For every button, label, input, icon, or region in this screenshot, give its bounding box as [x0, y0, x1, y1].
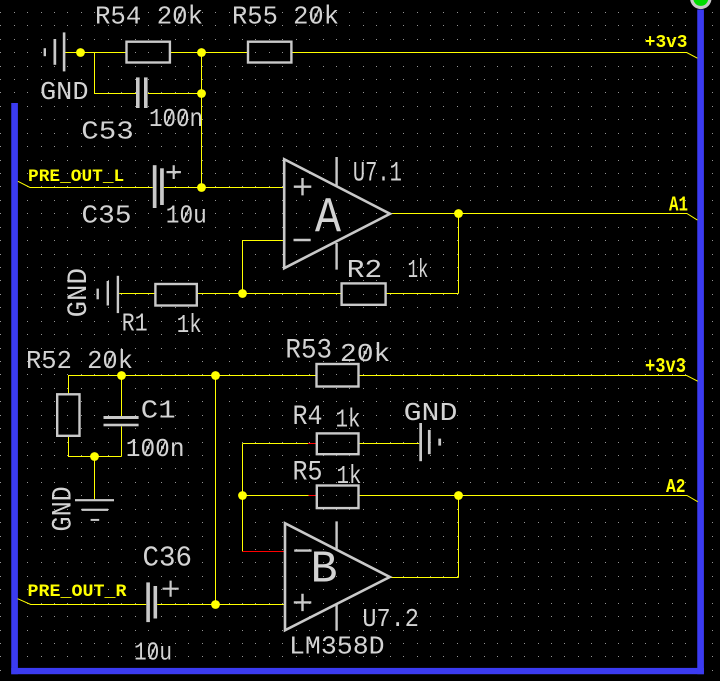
wire C1 bottom down	[121, 426, 123, 456]
wire R1 to R2	[197, 293, 342, 295]
svg-text:R5: R5	[293, 458, 323, 489]
wire red stub R4 left	[308, 443, 317, 445]
svg-text:LM358D: LM358D	[289, 632, 385, 662]
wire to R5 left	[243, 495, 309, 497]
sheet border bottom	[11, 668, 704, 674]
wire vertical column B minus	[242, 444, 244, 552]
op-amp A minus input mark	[294, 239, 311, 241]
svg-text:U7.2: U7.2	[362, 604, 419, 634]
wire node to op-amp A minus input	[243, 241, 285, 294]
wire GND1 to R54	[65, 52, 126, 54]
capacitor C1	[104, 416, 139, 426]
op-amp A plus input mark	[294, 178, 312, 195]
resistor R55	[248, 42, 291, 63]
svg-text:100n: 100n	[126, 434, 185, 464]
node junction GND3	[90, 452, 99, 461]
wire long vertical PRE_OUT_R column	[215, 376, 217, 605]
op-amp B power pins	[335, 521, 337, 630]
wire branch to C53 left	[95, 53, 137, 94]
svg-text:1k: 1k	[177, 310, 202, 340]
wire C53 right to node	[148, 93, 202, 95]
node junction C53	[197, 89, 206, 98]
svg-text:1k: 1k	[337, 461, 362, 491]
wire feedback vertical B	[458, 496, 460, 578]
resistor R52	[57, 394, 79, 436]
svg-text:C1: C1	[141, 395, 176, 425]
op-amp U7.1 triangle	[284, 159, 390, 268]
svg-text:+3v3: +3v3	[645, 356, 686, 379]
wire red op-amp B minus input	[243, 551, 285, 553]
wire GND2 to R1	[119, 293, 155, 295]
ground GND2	[97, 276, 120, 313]
wire R2 to feedback	[386, 293, 459, 295]
resistor R1	[155, 284, 196, 306]
capacitor C36	[146, 582, 157, 622]
node junction A2	[454, 491, 463, 500]
svg-text:R54 20k: R54 20k	[95, 2, 203, 32]
svg-text:R55 20k: R55 20k	[232, 2, 339, 32]
resistor R4	[317, 433, 359, 454]
capacitor C35	[153, 165, 164, 208]
wire R54 to R55	[170, 52, 248, 54]
svg-text:GND: GND	[64, 268, 95, 317]
node junction C1 top	[117, 371, 126, 380]
svg-text:GND: GND	[40, 77, 89, 107]
wire to R4 left	[243, 443, 309, 445]
wire feedback vertical A	[458, 214, 460, 294]
op-amp B minus input mark	[294, 549, 311, 551]
wire R4 to GND4	[359, 443, 420, 445]
wire C36 to op-amp B plus input	[157, 604, 284, 606]
node junction GND1	[76, 48, 85, 57]
sheet border right	[697, 10, 704, 675]
svg-text:C35: C35	[82, 200, 132, 230]
svg-text:1k: 1k	[408, 255, 429, 285]
corner handle	[690, 0, 711, 9]
svg-text:R2: R2	[347, 255, 383, 285]
svg-text:U7.1: U7.1	[353, 159, 402, 190]
node junction R54-R55	[197, 48, 206, 57]
ground GND4	[419, 423, 441, 461]
svg-text:GND: GND	[404, 398, 458, 428]
op-amp A power pins	[335, 157, 337, 270]
wire node to C1 top	[121, 376, 123, 417]
node junction A output	[454, 209, 463, 218]
svg-text:A2: A2	[666, 476, 686, 498]
svg-text:R4: R4	[293, 402, 323, 433]
wire node to GND3	[94, 457, 96, 500]
node junction R1-R2	[238, 289, 247, 298]
svg-text:B: B	[311, 545, 338, 596]
svg-text:+3v3: +3v3	[645, 32, 688, 53]
wire R5 to A2 port	[359, 496, 698, 502]
wire vertical node column	[201, 53, 203, 188]
svg-text:A1: A1	[669, 194, 688, 218]
node junction rail column	[211, 371, 220, 380]
resistor R5	[317, 486, 359, 509]
plus mark C35	[167, 165, 181, 179]
ground GND3	[75, 499, 114, 521]
wire R52 top rail	[69, 376, 317, 395]
svg-text:GND: GND	[49, 486, 80, 531]
capacitor C53	[136, 77, 148, 108]
node junction C35	[197, 183, 206, 192]
wire op-amp B output	[390, 577, 459, 579]
wire red stub R5 left	[309, 495, 317, 497]
svg-text:R52 20k: R52 20k	[26, 346, 133, 376]
resistor R2	[342, 283, 386, 304]
ground GND1	[44, 32, 66, 71]
op-amp U7.2 triangle	[285, 523, 390, 630]
wire R53 to +3v3 port	[359, 376, 698, 382]
slashed zero marks	[107, 8, 369, 659]
svg-text:R53: R53	[285, 336, 332, 367]
svg-text:100n: 100n	[149, 104, 203, 134]
op-amp B plus input mark	[294, 594, 312, 611]
wire C35 to op-amp A plus input	[164, 187, 284, 189]
svg-text:1k: 1k	[336, 405, 361, 435]
wire PRE_OUT_L to C35	[18, 181, 153, 187]
node junction C36	[211, 600, 220, 609]
svg-text:C36: C36	[143, 542, 193, 575]
sheet border left	[11, 103, 18, 674]
wire op-amp A output to A1 port	[390, 214, 697, 221]
wire R52 bottom across	[69, 436, 122, 457]
svg-text:PRE_OUT_L: PRE_OUT_L	[28, 167, 124, 187]
wire PRE_OUT_R to C36	[18, 599, 147, 605]
svg-text:C53: C53	[81, 117, 134, 147]
node junction R5 left	[238, 491, 247, 500]
resistor R53	[317, 364, 359, 387]
svg-text:PRE_OUT_R: PRE_OUT_R	[28, 582, 128, 602]
plus mark C36	[163, 581, 179, 597]
svg-text:A: A	[315, 191, 341, 248]
resistor R54	[127, 42, 170, 63]
wire R55 to +3v3 port	[291, 53, 697, 59]
svg-text:R1: R1	[122, 309, 148, 339]
